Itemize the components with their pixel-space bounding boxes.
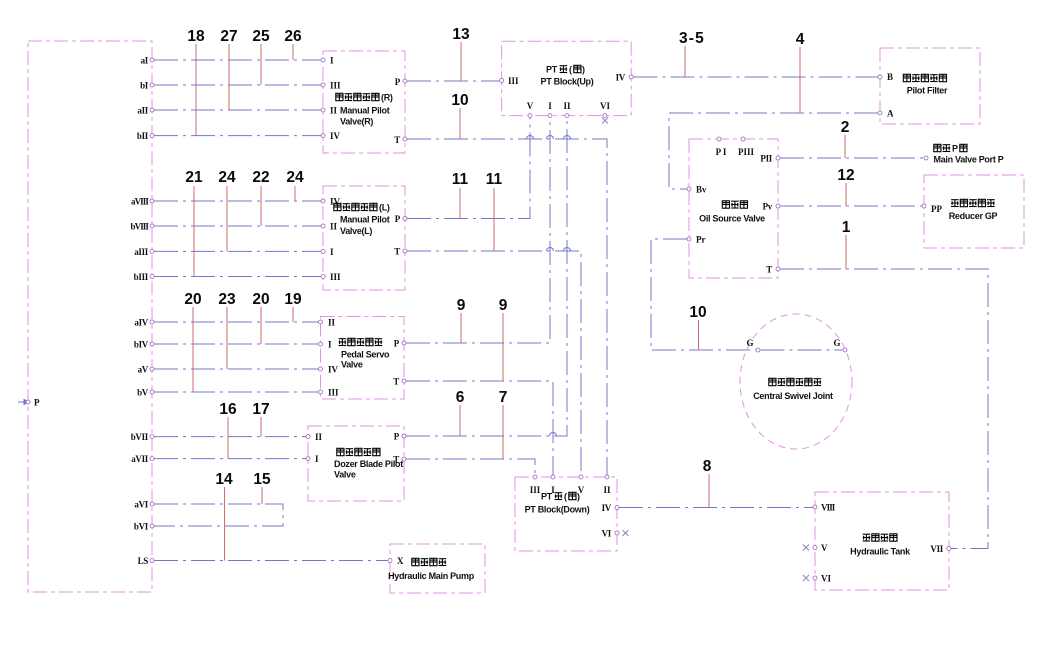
wire aIII to MPV(L) I <box>154 250 321 252</box>
leader 2 <box>844 135 846 158</box>
wire aII to MPV(R) II <box>154 109 321 111</box>
svg-text:III: III <box>530 485 541 495</box>
svg-text:bVIII: bVIII <box>130 222 149 232</box>
svg-text:Reducer GP: Reducer GP <box>949 211 998 221</box>
svg-text:IV: IV <box>602 503 612 513</box>
svg-text:(: ( <box>564 492 567 502</box>
box Oil Source Valve <box>689 139 778 278</box>
svg-text:VI: VI <box>602 529 612 539</box>
port Pump X <box>388 559 392 563</box>
leader 14 <box>224 487 226 561</box>
svg-text:III: III <box>328 388 339 398</box>
wire aI to MPV(R) I <box>154 59 321 61</box>
leader 27 <box>228 44 230 110</box>
svg-text:I: I <box>330 247 334 257</box>
svg-text:III: III <box>508 76 519 86</box>
wire MPV(L) T to PT-Down V <box>407 251 581 475</box>
wire aV to PSV IV <box>154 368 319 370</box>
svg-text:10: 10 <box>451 92 468 109</box>
svg-text:7: 7 <box>499 389 508 406</box>
port Main Valve Port P <box>924 156 928 160</box>
box Hydraulic Tank <box>815 492 949 590</box>
box Dozer Blade Pilot Valve <box>308 426 404 501</box>
svg-text:bI: bI <box>140 81 149 91</box>
wire DBPV T to PT-Down III <box>406 459 535 475</box>
wire OSV Pr to Swivel G <box>651 239 756 350</box>
svg-text:LS: LS <box>138 556 149 566</box>
plug X left of Tank V <box>803 545 809 551</box>
wire PT-Up IV to Pilot Filter B <box>634 76 879 78</box>
ports PT-Down <box>533 475 537 479</box>
svg-text:aVIII: aVIII <box>131 197 149 207</box>
wire bII to MPV(R) IV <box>154 135 321 137</box>
svg-text:PII: PII <box>760 154 772 164</box>
svg-text:III: III <box>330 81 341 91</box>
bump V-line over MPV(R) T <box>527 136 534 140</box>
svg-text:P: P <box>394 432 400 442</box>
svg-text:12: 12 <box>837 167 854 184</box>
svg-text:26: 26 <box>284 28 302 45</box>
svg-text:Valve: Valve <box>341 360 363 370</box>
svg-text:II: II <box>603 485 611 495</box>
svg-text:23: 23 <box>218 291 236 308</box>
leader 9 left <box>460 313 462 343</box>
svg-text:bIII: bIII <box>134 272 149 282</box>
svg-text:Pedal Servo: Pedal Servo <box>341 350 390 360</box>
svg-text:aIV: aIV <box>134 318 148 328</box>
leader 24 right <box>294 186 296 201</box>
svg-text:15: 15 <box>253 471 271 488</box>
box PT Block (Down) <box>515 477 617 551</box>
svg-text:27: 27 <box>220 28 237 45</box>
svg-text:(L): (L) <box>379 203 390 213</box>
svg-text:I: I <box>330 56 334 66</box>
svg-text:II: II <box>563 101 571 111</box>
svg-text:16: 16 <box>219 401 237 418</box>
text MPV(L) <box>334 203 390 237</box>
svg-text:PIII: PIII <box>738 147 755 157</box>
svg-text:10: 10 <box>689 304 706 321</box>
svg-text:aIII: aIII <box>134 247 149 257</box>
svg-text:P: P <box>394 339 400 349</box>
svg-text:Main Valve Port P: Main Valve Port P <box>934 155 1004 165</box>
text Pilot Filter <box>903 74 948 95</box>
svg-text:9: 9 <box>499 297 508 314</box>
wire bI to MPV(R) III <box>154 84 321 86</box>
text PT Block Down <box>525 492 590 515</box>
bump II-line over MPV(L) T <box>564 248 571 252</box>
svg-text:Pv: Pv <box>763 202 773 212</box>
leader 9 right <box>502 313 504 381</box>
wire OSV PII to Main Valve Port P <box>780 157 924 159</box>
svg-text:T: T <box>394 247 400 257</box>
wire bV to PSV III <box>154 391 319 393</box>
box Manual Pilot Valve (R) <box>323 51 405 153</box>
svg-text:): ) <box>577 492 580 502</box>
wire aIV to PSV II <box>154 321 319 323</box>
svg-text:Valve: Valve <box>334 470 356 480</box>
svg-text:II: II <box>330 106 338 116</box>
text DBPV <box>334 448 403 479</box>
leader 12 <box>845 183 847 206</box>
wire OSV T to Tank VII <box>780 269 988 549</box>
svg-text:Hydraulic Main Pump: Hydraulic Main Pump <box>388 571 475 581</box>
box PT Block (Up) <box>502 41 632 115</box>
svg-text:Pilot Filter: Pilot Filter <box>907 86 948 96</box>
svg-text:PT Block(Up): PT Block(Up) <box>541 77 594 87</box>
wire PT-Down IV to Tank VIII <box>619 507 813 509</box>
plug X below PT-Up VI <box>602 118 608 124</box>
wire MPV(L) P to PT-Up V <box>407 117 530 219</box>
ports Tank <box>813 505 817 509</box>
text Main Valve Port P <box>934 144 1004 165</box>
svg-text:bVI: bVI <box>134 522 149 532</box>
svg-text:VII: VII <box>930 544 943 554</box>
ports PT-Up <box>500 79 504 83</box>
text Reducer GP <box>949 199 998 221</box>
svg-text:VI: VI <box>600 101 610 111</box>
wire MPV(R) T to PT-Down II <box>407 139 607 475</box>
svg-text:2: 2 <box>841 119 850 136</box>
text Hydraulic Tank <box>850 534 911 557</box>
leader 11 right <box>493 188 495 251</box>
bump I-line over MPV(L) T <box>547 248 554 252</box>
wire bIV to PSV I <box>154 343 319 345</box>
port Reducer PP <box>922 204 926 208</box>
svg-text:24: 24 <box>218 169 236 186</box>
svg-text:11: 11 <box>452 171 469 188</box>
leader 1 <box>845 235 847 269</box>
text Central Swivel Joint <box>753 378 833 401</box>
svg-text:): ) <box>582 65 585 75</box>
svg-text:Pr: Pr <box>696 235 706 245</box>
svg-text:Dozer Blade Pilot: Dozer Blade Pilot <box>334 459 403 469</box>
wire OSV Pv to Reducer PP <box>780 205 922 207</box>
svg-text:18: 18 <box>187 28 205 45</box>
arrow into P port of manifold <box>18 400 29 405</box>
wire PSV P to PT-Up I <box>406 117 550 343</box>
svg-text:PT: PT <box>546 65 558 75</box>
ports MPV(R) <box>321 58 325 62</box>
leader 4 <box>799 47 801 113</box>
svg-text:PT Block(Down): PT Block(Down) <box>525 505 590 515</box>
leader 10 lower <box>698 320 700 350</box>
svg-text:bV: bV <box>137 388 149 398</box>
plug X right of PT-Down VI <box>623 530 629 536</box>
bump I-line over MPV(R) T <box>547 136 554 140</box>
text MPV(R) <box>336 93 393 127</box>
svg-text:Central Swivel Joint: Central Swivel Joint <box>753 391 833 401</box>
svg-text:(R): (R) <box>381 93 393 103</box>
ellipse Central Swivel Joint <box>740 314 852 449</box>
leader 19 <box>292 307 294 322</box>
bump PSV-T-line over DBPV P <box>550 433 557 436</box>
svg-text:II: II <box>315 432 323 442</box>
svg-text:8: 8 <box>703 458 712 475</box>
ports Pilot Filter <box>878 75 882 79</box>
box Pilot Filter <box>880 48 980 124</box>
svg-text:Bv: Bv <box>696 185 707 195</box>
svg-text:17: 17 <box>252 401 269 418</box>
svg-text:aI: aI <box>141 56 149 66</box>
svg-text:X: X <box>397 556 404 566</box>
svg-text:PT: PT <box>541 492 553 502</box>
svg-text:I: I <box>328 340 332 350</box>
leader 17 <box>260 417 262 437</box>
svg-text:9: 9 <box>457 297 466 314</box>
svg-text:P: P <box>34 398 40 408</box>
ports manifold right edge <box>150 58 154 62</box>
svg-text:T: T <box>394 135 400 145</box>
svg-text:P: P <box>395 214 401 224</box>
leader 11 left <box>459 188 461 219</box>
svg-text:P I: P I <box>716 147 727 157</box>
svg-text:VIII: VIII <box>821 503 836 513</box>
svg-text:20: 20 <box>252 291 269 308</box>
svg-text:V: V <box>527 101 534 111</box>
leader 20 left <box>192 307 194 392</box>
svg-text:Valve(L): Valve(L) <box>340 226 372 236</box>
wire aVII to DBPV I <box>154 458 306 460</box>
svg-text:VI: VI <box>821 574 831 584</box>
wire MPV(R) P to PT-Up III <box>407 80 500 82</box>
svg-text:III: III <box>330 272 341 282</box>
leader 15 <box>261 487 263 504</box>
bump II-line over MPV(R) T <box>564 136 571 140</box>
svg-text:3-5: 3-5 <box>679 30 705 47</box>
wire aVI loop <box>154 504 283 526</box>
svg-text:G: G <box>746 338 753 348</box>
svg-text:aVI: aVI <box>134 500 148 510</box>
wire aVIII to MPV(L) IV <box>154 200 321 202</box>
wire Pilot Filter A to OSV Bv <box>669 113 878 189</box>
svg-text:24: 24 <box>286 169 304 186</box>
svg-text:PP: PP <box>931 204 942 214</box>
box Reducer GP <box>924 175 1024 248</box>
leader 8 <box>708 474 710 508</box>
leader 24 left <box>226 186 228 251</box>
text OSV <box>699 201 765 224</box>
svg-text:6: 6 <box>456 389 465 406</box>
ports DBPV <box>306 435 310 439</box>
svg-text:P: P <box>395 77 401 87</box>
leader 3-5 <box>684 46 686 77</box>
svg-text:Manual Pilot: Manual Pilot <box>340 215 390 225</box>
leader 23 <box>226 307 228 369</box>
ports OSV <box>717 137 721 141</box>
port manifold P <box>26 400 30 404</box>
wire bVIII to MPV(L) II <box>154 225 321 227</box>
text Hydraulic Main Pump <box>388 558 475 581</box>
ports Swivel G G <box>756 348 760 352</box>
wire PSV T to PT-Down I <box>406 381 553 475</box>
wire LS to pump X <box>154 560 388 562</box>
box Manual Pilot Valve (L) <box>323 186 405 290</box>
svg-text:II: II <box>328 318 336 328</box>
svg-text:bIV: bIV <box>134 340 149 350</box>
svg-text:I: I <box>315 454 319 464</box>
plug X left of Tank VI <box>803 575 809 581</box>
wire Swivel G to G <box>761 349 843 351</box>
leader 18 <box>195 44 197 136</box>
svg-text:1: 1 <box>842 219 851 236</box>
svg-text:G: G <box>833 338 840 348</box>
wire bIII to MPV(L) III <box>154 276 321 278</box>
leader 22 <box>260 186 262 226</box>
box Hydraulic Main Pump <box>390 544 485 593</box>
svg-text:aVII: aVII <box>131 454 149 464</box>
svg-text:aV: aV <box>138 365 149 375</box>
leader 20 right <box>260 307 262 344</box>
svg-text:A: A <box>887 109 894 119</box>
svg-text:14: 14 <box>215 471 233 488</box>
svg-text:Hydraulic Tank: Hydraulic Tank <box>850 547 911 557</box>
svg-text:T: T <box>393 377 399 387</box>
ports PSV <box>319 320 323 324</box>
left manifold box P <box>28 41 152 592</box>
svg-text:bII: bII <box>137 131 149 141</box>
svg-text:25: 25 <box>252 28 270 45</box>
leader 7 <box>502 405 504 459</box>
svg-text:IV: IV <box>330 131 341 141</box>
svg-text:19: 19 <box>284 291 302 308</box>
svg-text:T: T <box>766 265 772 275</box>
box Pedal Servo Valve <box>321 317 405 400</box>
leader 10 upper <box>459 108 461 139</box>
leader 25 <box>260 44 262 85</box>
svg-text:21: 21 <box>185 169 203 186</box>
svg-text:II: II <box>330 222 338 232</box>
leader 6 <box>459 405 461 436</box>
leader 26 <box>292 44 294 60</box>
leader 16 <box>227 417 229 459</box>
leader 21 <box>193 186 195 277</box>
ports MPV(L) <box>321 199 325 203</box>
svg-text:aII: aII <box>137 106 148 116</box>
svg-text:IV: IV <box>328 365 339 375</box>
svg-text:B: B <box>887 72 893 82</box>
text PT Block Up <box>541 65 594 87</box>
svg-text:11: 11 <box>486 171 503 188</box>
svg-text:Valve(R): Valve(R) <box>340 117 373 127</box>
svg-text:bVII: bVII <box>131 432 149 442</box>
svg-text:13: 13 <box>452 26 470 43</box>
svg-text:P: P <box>952 144 958 154</box>
svg-text:Manual Pilot: Manual Pilot <box>340 106 390 116</box>
wire bVII to DBPV II <box>154 436 306 438</box>
svg-text:I: I <box>548 101 552 111</box>
svg-text:V: V <box>821 543 828 553</box>
svg-text:20: 20 <box>184 291 201 308</box>
svg-text:Oil Source Valve: Oil Source Valve <box>699 214 765 224</box>
wire DBPV P to PT-Up II <box>406 117 567 436</box>
svg-text:22: 22 <box>252 169 269 186</box>
leader 13 <box>460 42 462 81</box>
svg-text:(: ( <box>569 65 572 75</box>
text PSV <box>339 338 390 369</box>
svg-text:4: 4 <box>796 31 805 48</box>
svg-text:IV: IV <box>616 73 626 83</box>
